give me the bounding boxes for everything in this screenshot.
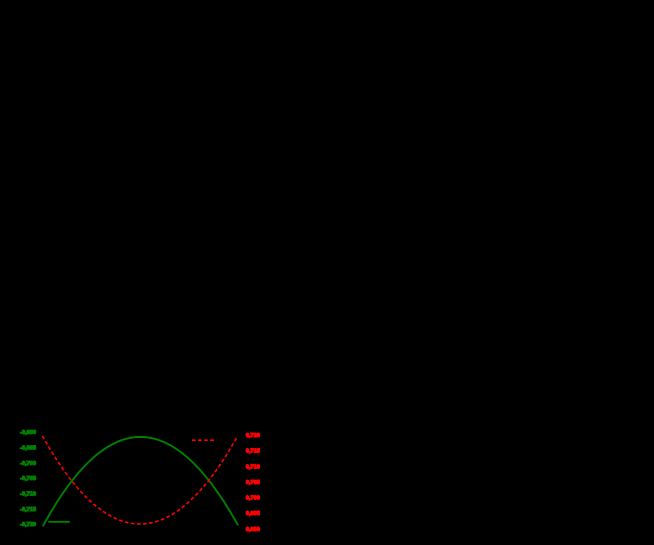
- svg-text:0,710: 0,710: [246, 464, 260, 470]
- svg-text:0,700: 0,700: [246, 496, 260, 502]
- svg-text:0,715: 0,715: [246, 449, 260, 455]
- svg-text:-0,715: -0,715: [20, 507, 36, 513]
- svg-text:0,705: 0,705: [246, 480, 260, 486]
- svg-text:-0,705: -0,705: [20, 476, 36, 482]
- svg-text:-0,710: -0,710: [20, 492, 36, 498]
- svg-text:0,720: 0,720: [246, 433, 260, 439]
- svg-text:0,690: 0,690: [246, 527, 260, 533]
- svg-text:-0,720: -0,720: [20, 522, 36, 528]
- svg-text:0,695: 0,695: [246, 511, 260, 517]
- svg-text:-0,690: -0,690: [20, 430, 36, 436]
- svg-text:-0,700: -0,700: [20, 461, 36, 467]
- svg-text:-0,695: -0,695: [20, 446, 36, 452]
